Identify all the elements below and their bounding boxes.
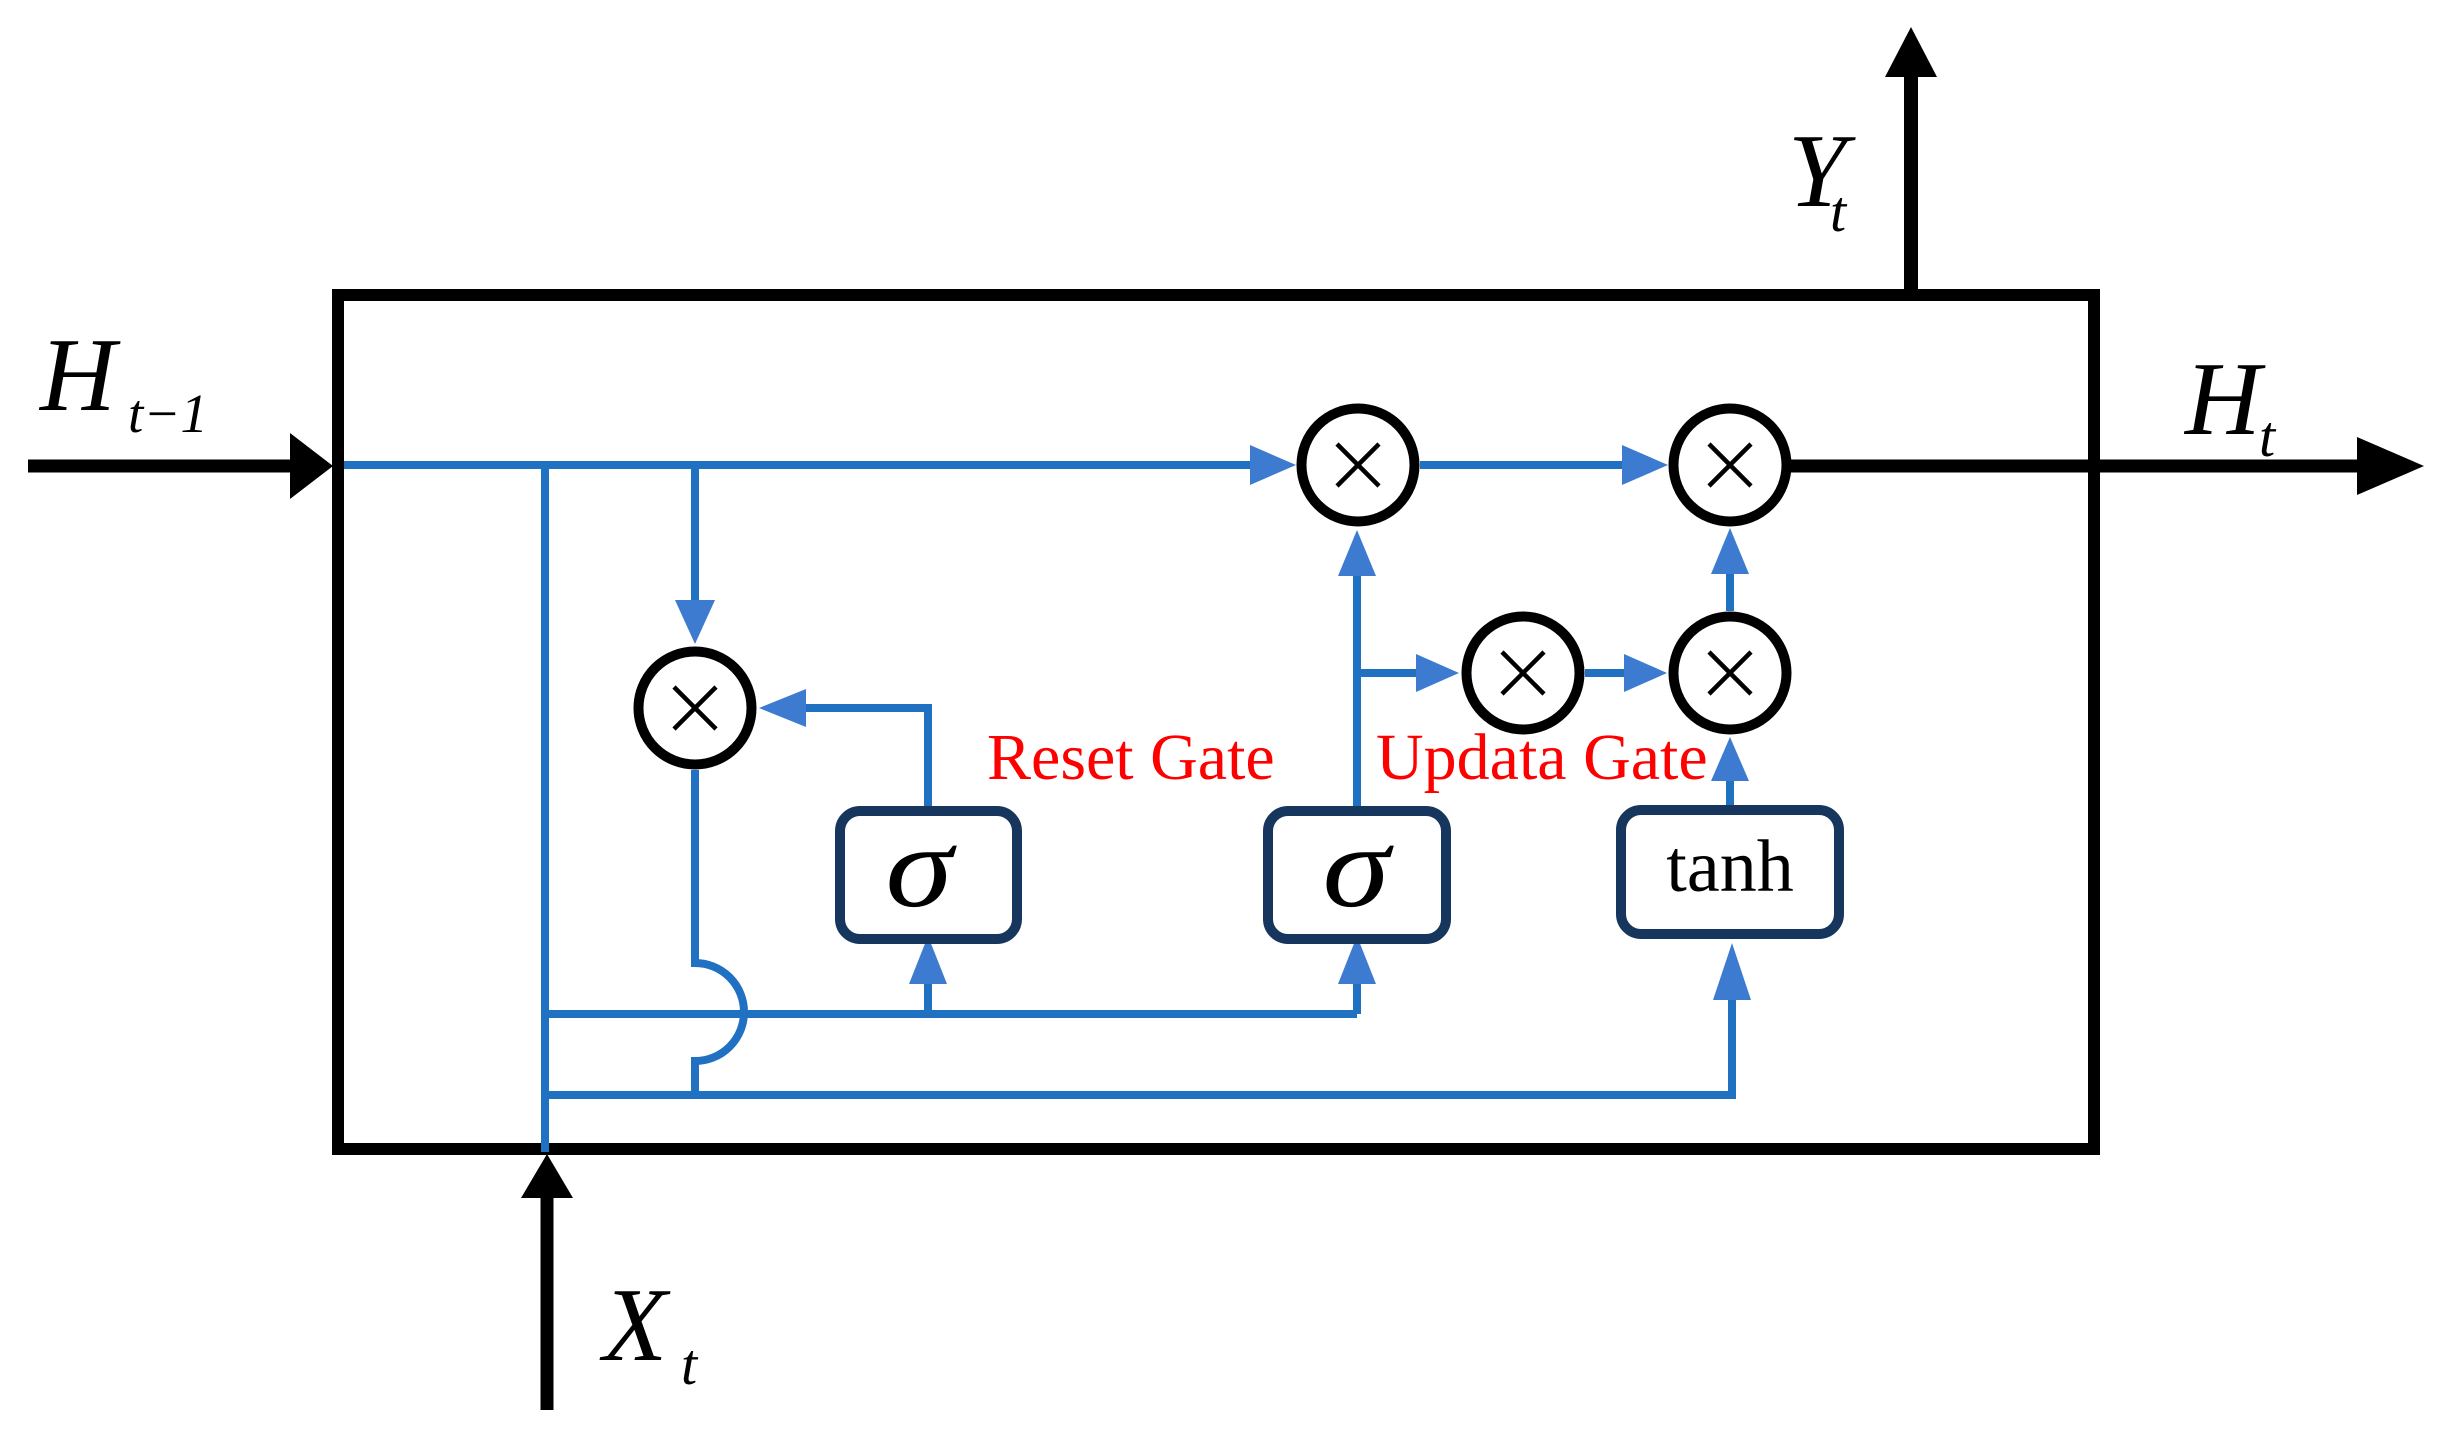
arrowhead into tanh bottom — [1713, 943, 1751, 1000]
svg-text:t: t — [1830, 179, 1848, 244]
multiply node M1 — [1302, 409, 1415, 522]
wire: M1 to M2 — [1420, 461, 1626, 469]
svg-text:t: t — [2259, 404, 2277, 469]
wire: sigma2 output up (update gate) — [1353, 576, 1361, 806]
svg-text:σ: σ — [886, 803, 958, 932]
arrowhead into sigma1 bottom — [909, 936, 947, 984]
wire: line1 up into sigma2 — [1353, 984, 1361, 1014]
sigma1 box — [840, 811, 1017, 939]
svg-text:t−1: t−1 — [128, 383, 208, 444]
arrowhead into M3 left — [1416, 654, 1459, 692]
wire: sigma1 input stub — [924, 984, 932, 1014]
arrowhead into M2 bottom — [1711, 528, 1749, 574]
wire: M5 output down with hop over gate bus — [695, 770, 744, 1095]
arrowhead into M2 left — [1622, 445, 1668, 485]
wire: branch down to reset multiply node M5 — [691, 465, 699, 600]
svg-text:Updata Gate: Updata Gate — [1376, 721, 1708, 794]
svg-text:t: t — [681, 1332, 699, 1397]
svg-text:σ: σ — [1323, 803, 1395, 932]
multiply node M5 (reset) — [639, 652, 752, 765]
svg-text:H: H — [38, 316, 121, 433]
output arrow Y_t (black) — [1904, 77, 1918, 289]
input arrow H_{t-1} (black) — [28, 460, 290, 473]
svg-text:H: H — [2183, 340, 2266, 457]
multiply node M3 — [1467, 617, 1580, 730]
input arrow X_t (black) — [541, 1198, 554, 1410]
arrowhead into M4 left — [1624, 654, 1667, 692]
wire: concat vertical at x=545 (X_t junction) — [541, 465, 549, 1152]
tanh box — [1621, 810, 1839, 934]
arrowhead into sigma2 bottom — [1338, 936, 1376, 984]
arrowhead into M5 right — [759, 689, 806, 727]
multiply node M4 — [1674, 617, 1787, 730]
svg-text:X: X — [599, 1266, 671, 1383]
arrowhead into M1 bottom — [1338, 530, 1376, 576]
output line H_t (black) — [1790, 460, 2360, 473]
sigma2 box — [1268, 811, 1446, 939]
GRU cell boundary box — [338, 295, 2094, 1149]
wire: tanh output up into M4 — [1726, 781, 1734, 805]
wire: gate input bus line1 — [545, 1010, 1357, 1018]
multiply node M2 — [1674, 409, 1787, 522]
wire: main H line (blue) — [344, 461, 1258, 469]
wire: tanh input bus line2 — [545, 1000, 1732, 1095]
svg-text:tanh: tanh — [1666, 826, 1793, 908]
wire: update branch to M3 — [1357, 669, 1416, 677]
arrowhead into M5 top — [675, 600, 715, 644]
wire: reset gate output from sigma1 to M5 — [806, 708, 928, 806]
svg-text:Reset Gate: Reset Gate — [987, 721, 1275, 794]
wire: M4 up into M2 — [1726, 574, 1734, 611]
wire: M3 to M4 — [1585, 669, 1624, 677]
arrowhead into multiply node M1 — [1250, 445, 1296, 485]
arrowhead into M4 bottom — [1711, 737, 1749, 781]
